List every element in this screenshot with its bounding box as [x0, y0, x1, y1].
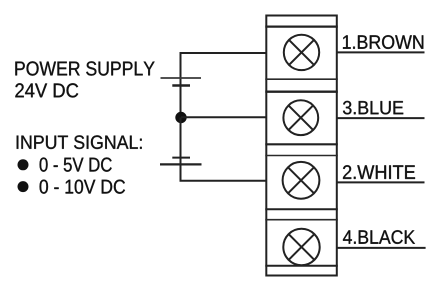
label 0 - 10V DC: [40, 180, 125, 194]
bullet 1: [18, 159, 29, 170]
battery B2 short plate (-): [172, 157, 190, 159]
terminal block top strip line: [265, 26, 338, 28]
battery B1 long plate (+): [161, 77, 202, 79]
separator strip 2 upper line: [265, 143, 338, 145]
label 1.BROWN: [343, 35, 423, 49]
terminal 4 circle with cross: [283, 229, 319, 265]
terminal 2 circle with cross: [283, 100, 318, 135]
separator strip 3 lower line: [265, 219, 338, 221]
bullet 2: [18, 181, 29, 192]
battery B2 long plate (+): [160, 163, 202, 165]
wire terminal 2 to 3.BLUE: [337, 117, 425, 119]
separator strip 2 lower line: [265, 155, 338, 157]
junction node: [175, 112, 186, 123]
wire top supply (+) to terminal 1: [181, 53, 267, 118]
separator strip 1 lower line: [265, 90, 338, 92]
label 4.BLACK: [343, 230, 415, 244]
wire junction down through B2 to terminal 2.WHITE: [181, 118, 267, 181]
terminal block outer frame: [266, 16, 337, 276]
wire terminal 3 to 2.WHITE: [337, 181, 425, 183]
terminal 3 circle with cross: [283, 162, 320, 199]
label POWER SUPPLY 24V DC: [15, 61, 154, 97]
label 2.WHITE: [343, 165, 415, 179]
separator strip 3 upper line: [265, 208, 338, 210]
wire terminal 1 to 1.BROWN: [337, 51, 425, 53]
label 0 - 5V DC: [40, 157, 112, 171]
battery B1 short plate (-): [172, 84, 190, 86]
separator strip 1 upper line: [265, 78, 338, 80]
terminal 1 circle with cross: [284, 35, 319, 70]
terminal block bottom strip line: [265, 265, 338, 267]
wire terminal 4 to 4.BLACK: [337, 247, 426, 249]
wire junction to terminal 3.BLUE: [181, 116, 267, 118]
label INPUT SIGNAL:: [17, 135, 142, 149]
label 3.BLUE: [343, 101, 403, 114]
